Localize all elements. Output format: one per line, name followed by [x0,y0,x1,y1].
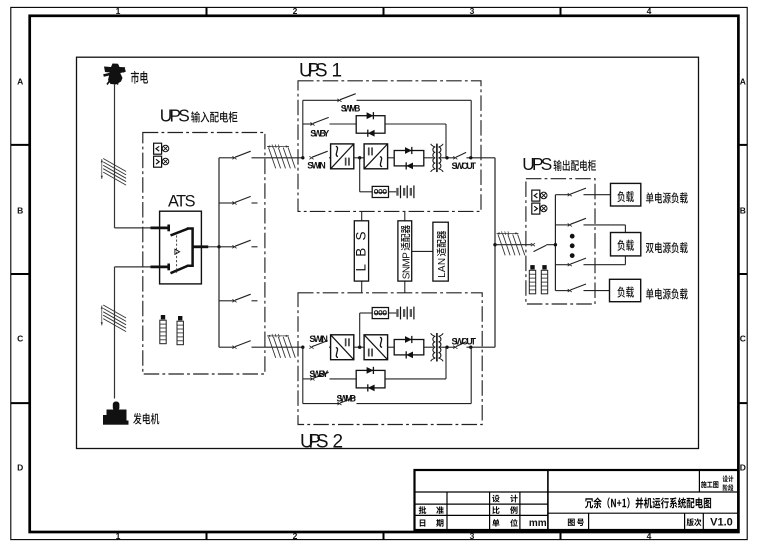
wire+breaker: bus to UPS2 input [219,346,235,348]
switch SWOUT (UPS2) [453,346,457,349]
surge arrester 1 (output cabinet) [530,265,534,269]
output transformer (UPS1) [436,144,438,173]
svg-text:UPS: UPS [160,106,190,126]
label: utility power [131,71,148,84]
title block stage: construction drawing [701,481,718,488]
title: redundant (N+1) parallel system distribution diagram [585,497,711,508]
wire: static switch to transformer [424,157,433,159]
wire: battery branch (UPS2) [359,313,361,347]
parallel output bus [494,158,496,347]
wire: transformer to SWOUT (UPS2) [441,346,455,348]
svg-text:C: C [740,334,746,344]
breaker: ATS-level feeder [219,246,235,248]
junction: bypass join before SWOUT (UPS1) [445,156,448,159]
wire: SNMP stubs [404,211,406,220]
title block label: scale [492,506,499,514]
svg-text:1: 1 [116,6,121,16]
svg-text:D: D [740,463,746,473]
wire: SWMB down to output [470,100,472,158]
breaker: spare feeder 2 [219,300,235,302]
surge arrester 2 (input cabinet) [178,316,182,320]
label LAN adapter [437,231,449,278]
cable marks on utility feed [103,159,126,172]
LBS (load bus sync) [354,221,368,281]
label: single-source load (top) [646,192,688,203]
svg-text:3: 3 [470,531,475,541]
surge arrester 1 (input cabinet) [161,315,165,319]
title block label: design [492,495,500,503]
UPS1 left bus [302,100,304,158]
rectifier (UPS1) [331,144,354,169]
wire: feed B rise [624,256,626,265]
junction: inlet on bus [554,243,557,246]
svg-text:LBS: LBS [353,232,368,272]
wire: SWMB up to output (UPS2) [470,347,472,403]
zone ticks [206,7,208,15]
svg-text:1: 1 [116,531,121,541]
load box 2 (dual source) [611,233,641,256]
inverter (UPS1) [364,144,388,169]
label SNMP adapter [401,225,413,279]
label: generator [133,413,159,424]
switch SWIN (UPS2) [309,346,313,349]
title block label: drawing no. [568,519,575,526]
svg-text:ATS: ATS [168,192,198,210]
junction: bypass join (UPS2) [445,346,448,349]
label load 1 [617,191,634,202]
ellipsis dots (more feeders) [570,234,575,239]
bypass diode pair (UPS2) [356,370,385,388]
title block label: unit [492,519,499,527]
switch SWBY (UPS1 static bypass) [303,123,313,125]
SNMP adapter box [398,221,412,281]
svg-text:C: C [17,334,23,344]
junction: maint bypass join (UPS2) [469,346,472,349]
breaker: spare feeder 1 [219,202,235,204]
svg-text:V1.0: V1.0 [710,517,733,529]
switch SWOUT (UPS1) [453,156,457,159]
wire: rectifier to inverter [354,157,364,159]
svg-text:4: 4 [647,531,652,541]
label: dual-source load [646,242,688,253]
UPS 2 enclosure [298,293,482,425]
wire: battery branch (UPS1) [359,158,361,192]
junction: output bus tap [493,243,496,246]
cable marks on generator feed [103,305,126,318]
output transformer (UPS2) [436,333,438,362]
wire: utility to ATS [114,85,116,228]
svg-text:SWBY: SWBY [310,128,329,138]
wire: bus tap to cabinet inlet [495,244,532,246]
svg-text:mm: mm [529,518,547,529]
breaker: load 1 [555,194,569,196]
label: single-source load (bottom) [646,288,688,299]
svg-text:SWIN: SWIN [309,334,328,344]
UPS2 left bus [302,347,304,403]
title block label: date [420,520,426,527]
static switch diodes (UPS2) [394,340,424,355]
UPS 1 enclosure [298,81,481,212]
battery string (UPS1) [396,188,398,196]
breaker: dual load feed B [555,264,569,266]
svg-text:D: D [17,463,23,473]
battery fuse-switch (UPS2) [372,308,388,319]
ATS (automatic transfer switch) [160,211,202,284]
svg-text:LAN: LAN [437,258,448,278]
wire: SNMP to LAN link [412,250,433,252]
wire: static switch to transformer (UPS2) [424,346,433,348]
svg-text:B: B [17,206,23,216]
wire: fuse to battery (UPS2) [389,312,397,314]
breaker: dual load feed A [555,224,569,226]
rectifier (UPS2) [331,335,354,360]
junction: UPS2 input [301,346,304,349]
svg-text:SWIN: SWIN [307,160,326,170]
load box 3 [610,279,641,301]
wire: LBS stubs [361,211,363,220]
wire: transformer to SWOUT [441,157,455,159]
switch SWMB (UPS2) [303,403,340,405]
wire: rectifier to inverter (UPS2) [354,346,364,348]
wire: ATS output to input bus [208,246,219,248]
wire: inverter to static switch (UPS2) [388,346,395,348]
svg-text:SWOUT: SWOUT [452,337,477,347]
input cabinet bus [218,158,220,347]
junction: ATS output on bus [217,245,220,248]
wire+breaker: bus to UPS1 input [219,157,235,159]
svg-text:3: 3 [470,6,475,16]
battery string (UPS2) [396,309,398,317]
svg-text:UPS: UPS [522,154,552,174]
title block label: revision [687,518,702,526]
cable marks UPS2 input [269,337,276,358]
battery fuse-switch (UPS1) [372,186,388,197]
label load 2 [617,240,634,251]
drawing frame [77,57,699,448]
junction: UPS1 input [301,156,304,159]
meter A with lamp (input cabinet) [154,156,162,167]
svg-text:SWOUT: SWOUT [452,161,477,171]
wire: inverter to static switch [388,157,395,159]
svg-text:1: 1 [332,60,343,81]
svg-text:UPS: UPS [299,60,328,81]
meter A with lamp (output cabinet) [532,203,540,214]
cable marks UPS1 input [269,148,276,169]
UPS output cabinet enclosure [526,179,595,304]
svg-text:4: 4 [647,6,652,16]
svg-text:2: 2 [333,431,344,452]
junction: maint bypass join (UPS1) [469,156,472,159]
meter V with lamp (output cabinet) [532,190,540,201]
UPS input cabinet enclosure [143,133,265,375]
cable marks on output feed [498,234,505,255]
surge arrester 2 (output cabinet) [542,265,546,269]
svg-text:SWBY: SWBY [309,369,328,379]
wire: SWBY to output join (UPS2) [385,378,446,380]
wire: fuse to battery (UPS1) [389,191,397,193]
static switch diodes (UPS1) [394,151,424,166]
switch SWMB (UPS1 maint. bypass) [303,99,340,101]
LAN adapter box [433,222,448,281]
utility power icon (pylon) [104,64,125,85]
bypass diode pair (UPS1) [356,116,385,134]
inverter (UPS2) [364,335,388,360]
wire: SWBY diodes to output join [385,123,446,125]
wire: feed A drop [624,225,626,233]
svg-text:B: B [740,206,746,216]
svg-text:A: A [17,77,23,87]
svg-text:2: 2 [293,6,298,16]
svg-text:SNMP: SNMP [401,252,412,279]
svg-text:2: 2 [293,531,298,541]
title block [415,470,739,530]
svg-text:SWMB: SWMB [337,393,357,403]
title block label: approve [419,506,427,514]
wire: generator to ATS [114,267,116,399]
junction: battery tap (UPS2) [358,346,361,349]
label load 3 [617,286,634,297]
meter V with lamp (input cabinet) [154,143,162,154]
switch SWIN (UPS1) [309,156,313,159]
generator icon [103,421,129,425]
load box 1 [611,183,641,206]
output cabinet bus [554,195,556,291]
breaker: load 3 [555,290,569,292]
junction: DC link / battery tap (UPS1) [358,156,361,159]
switch SWBY (UPS2) [303,378,313,380]
inlet switch (output cabinet) [531,243,535,246]
svg-text:UPS: UPS [300,431,329,452]
svg-text:SWMB: SWMB [341,104,361,114]
svg-text:A: A [740,77,746,87]
